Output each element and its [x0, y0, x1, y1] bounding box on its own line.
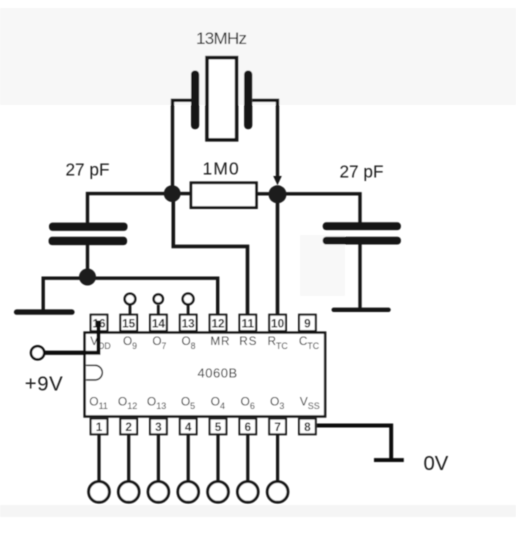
svg-text:8: 8: [304, 420, 311, 434]
pin 7: [269, 419, 286, 435]
pin 6: [239, 419, 256, 435]
svg-text:12: 12: [211, 316, 225, 330]
svg-text:+9V: +9V: [25, 374, 63, 396]
svg-text:MR: MR: [210, 334, 230, 348]
crystal X1 13MHz: [191, 58, 252, 140]
wire +9V into pin 16: [45, 321, 99, 353]
terminal (open) below pin 2: [118, 435, 139, 503]
wire node A to pin 11 RS: [173, 194, 247, 315]
wire pin 8 VSS to 0V: [317, 426, 391, 461]
wire crystal right down toward node B: [252, 100, 277, 178]
wire node A to capacitor C1: [88, 194, 192, 223]
svg-text:1: 1: [96, 420, 103, 434]
svg-text:5: 5: [215, 420, 222, 434]
pin 16: [91, 315, 108, 331]
IC pin-1 notch: [86, 365, 102, 380]
svg-text:11: 11: [242, 316, 255, 330]
ground (right): [332, 308, 391, 312]
terminal (open) below pin 6: [237, 435, 258, 503]
pin 11: [239, 315, 256, 331]
pin 14: [150, 315, 167, 331]
pin 13: [180, 315, 197, 331]
wire C1 to node C: [86, 245, 89, 277]
svg-text:1M0: 1M0: [203, 159, 240, 179]
svg-text:10: 10: [271, 316, 285, 330]
wire crystal left to node A: [173, 100, 192, 193]
svg-text:9: 9: [304, 316, 311, 330]
svg-text:27 pF: 27 pF: [340, 162, 384, 182]
svg-text:4060B: 4060B: [198, 366, 238, 381]
node C junction: [79, 269, 96, 286]
pin 4: [180, 419, 197, 435]
svg-text:2: 2: [125, 420, 132, 434]
pin 8: [299, 419, 316, 435]
wire node B to pin 10 RTC: [276, 194, 280, 315]
pin 1: [91, 419, 108, 435]
svg-text:14: 14: [152, 316, 166, 330]
wire node C to ground: [43, 278, 87, 310]
terminal (open) above pin: [154, 294, 163, 315]
pin 2: [120, 419, 137, 435]
op IC U1 4060B body: [85, 333, 325, 417]
svg-text:13MHz: 13MHz: [196, 29, 247, 48]
wire node C to pin 12 MR: [88, 278, 218, 315]
svg-text:7: 7: [274, 420, 281, 434]
terminal (open) below pin 4: [178, 435, 199, 503]
ground 0V rail: [374, 458, 404, 462]
terminal (open) above pin: [183, 294, 194, 315]
resistor R1: [191, 183, 256, 208]
svg-text:4: 4: [185, 420, 192, 434]
pin 3: [150, 419, 167, 435]
pin 5: [210, 419, 227, 435]
wire node B to capacitor C2: [256, 194, 360, 223]
svg-text:0V: 0V: [424, 453, 449, 475]
pin 12: [210, 315, 227, 331]
pin 15: [120, 315, 137, 331]
svg-text:RS: RS: [239, 334, 257, 348]
terminal +9V: [31, 346, 44, 359]
wire +9V terminal to pin 16 VDD: [45, 321, 99, 353]
pin 9: [299, 315, 316, 331]
svg-text:15: 15: [122, 316, 136, 330]
arrowhead at node B: [273, 176, 282, 185]
capacitor C2 27pF: [323, 222, 401, 244]
node B junction: [269, 185, 287, 203]
svg-text:3: 3: [155, 420, 162, 434]
ground (left): [14, 309, 75, 314]
terminal (open) above pin: [125, 294, 136, 315]
terminal (open) below pin 5: [208, 435, 229, 503]
svg-text:13: 13: [182, 316, 196, 330]
pin 10: [269, 315, 286, 331]
capacitor C1 27pF: [49, 223, 128, 246]
terminal (open) below pin 3: [148, 435, 169, 503]
terminal (open) below pin 7: [267, 435, 288, 503]
terminal (open) below pin 1: [89, 435, 110, 503]
wire C2 to ground: [358, 244, 361, 310]
node A junction: [164, 185, 181, 202]
svg-text:27 pF: 27 pF: [66, 160, 110, 180]
svg-text:6: 6: [245, 420, 252, 434]
